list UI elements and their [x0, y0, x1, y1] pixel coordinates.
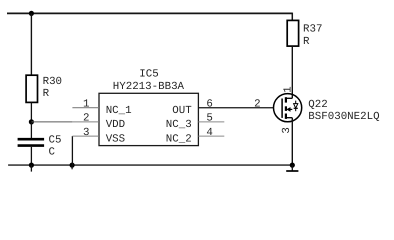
resistor R30 [26, 75, 62, 102]
wire stub below C5 junction [30, 165, 32, 172]
svg-text:C: C [49, 146, 56, 158]
svg-text:Q22: Q22 [308, 99, 327, 111]
svg-text:3: 3 [281, 127, 293, 133]
junction VDD node [29, 119, 34, 124]
svg-text:4: 4 [206, 127, 212, 139]
svg-text:C5: C5 [49, 134, 62, 146]
junction bottom C5 [29, 163, 34, 168]
svg-text:2: 2 [83, 113, 89, 125]
svg-text:IC5: IC5 [139, 69, 158, 81]
svg-text:2: 2 [254, 98, 260, 110]
wire left vertical to R30 [30, 13, 32, 75]
svg-text:1: 1 [83, 98, 89, 110]
svg-text:R: R [43, 88, 50, 100]
svg-text:NC_1: NC_1 [106, 105, 132, 117]
svg-text:VDD: VDD [106, 119, 125, 131]
svg-text:HY2213-BB3A: HY2213-BB3A [113, 81, 185, 93]
wire bottom rail [8, 164, 292, 166]
pin 2 stub [72, 121, 99, 123]
svg-text:OUT: OUT [172, 105, 192, 117]
svg-text:6: 6 [206, 98, 212, 110]
wire R37 to drain [291, 46, 293, 98]
wire source vertical [291, 118, 293, 165]
svg-text:3: 3 [83, 127, 89, 139]
junction bottom right [290, 163, 295, 168]
IC IC5 HY2213-BB3A [99, 69, 198, 146]
body diode D internal [295, 101, 297, 104]
ground [286, 165, 298, 171]
pin 4 stub [198, 135, 224, 137]
pin 1 stub [72, 107, 99, 109]
svg-text:VSS: VSS [106, 133, 125, 145]
pin 3 stub [72, 135, 99, 137]
wire stub below VSS junction [71, 165, 73, 169]
resistor R37 [287, 20, 322, 47]
pin 6 wire OUT to gate [198, 107, 273, 109]
svg-text:R30: R30 [43, 76, 62, 88]
wire top rail [7, 12, 292, 14]
svg-text:BSF030NE2LQ: BSF030NE2LQ [308, 111, 379, 123]
pin 5 stub [198, 121, 224, 123]
junction top-left node [29, 11, 34, 16]
wire VDD horizontal [31, 121, 72, 123]
junction bottom VSS [70, 163, 75, 168]
wire VSS vertical [71, 136, 73, 165]
wire R30 to VDD node [30, 102, 32, 122]
svg-text:R37: R37 [303, 24, 322, 36]
svg-text:1: 1 [283, 86, 295, 92]
svg-text:NC_3: NC_3 [166, 119, 192, 131]
capacitor C5 [18, 122, 62, 165]
wire top rail corner down to R37 [291, 13, 293, 21]
svg-text:NC_2: NC_2 [166, 133, 192, 145]
svg-text:R: R [303, 36, 310, 48]
svg-text:5: 5 [206, 113, 212, 125]
transistor Q22 [274, 94, 302, 122]
